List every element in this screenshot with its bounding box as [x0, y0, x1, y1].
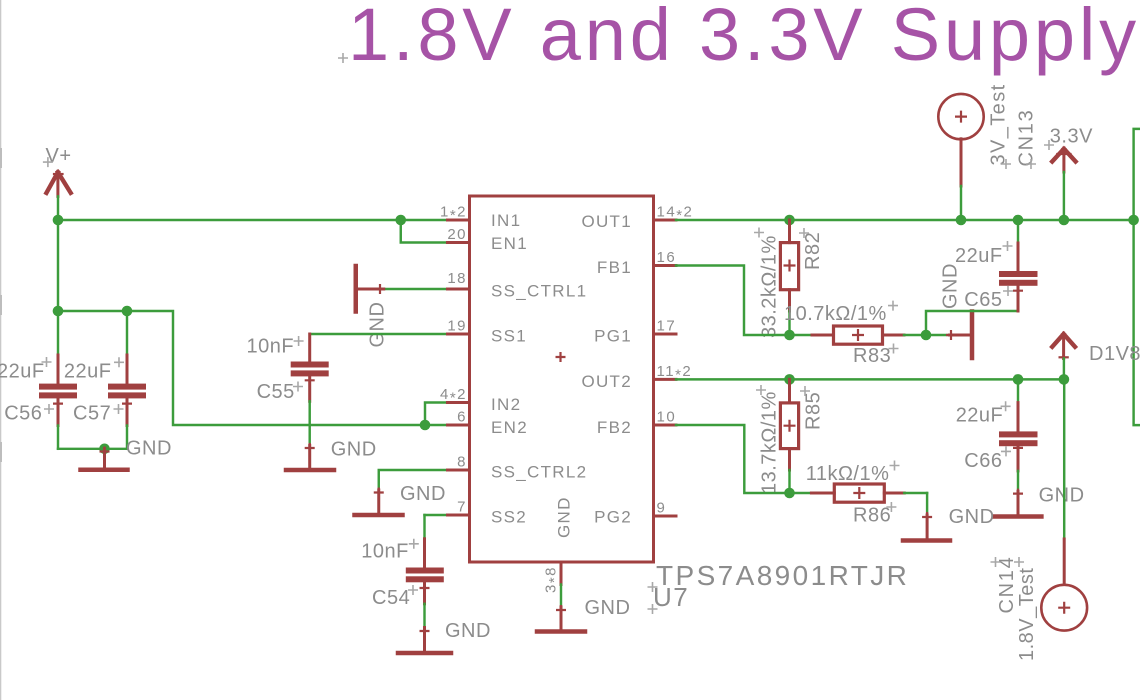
pin 11*2 OUT2 [581, 363, 692, 391]
pin 20 EN1 [447, 226, 528, 253]
pin 7 SS2 [448, 499, 528, 527]
svg-text:1.8V and 3.3V Supply: 1.8V and 3.3V Supply [348, 0, 1140, 76]
supply arrow 3.3V [1044, 125, 1093, 220]
svg-text:TPS7A8901RTJR: TPS7A8901RTJR [656, 560, 909, 591]
resistor R85 13.7kOhm [756, 379, 825, 494]
svg-text:1.8V_Test: 1.8V_Test [1016, 568, 1038, 661]
svg-text:6: 6 [457, 409, 467, 426]
svg-text:GND: GND [400, 483, 446, 505]
svg-text:16: 16 [657, 249, 677, 266]
wire right edge branch [1134, 129, 1140, 425]
junction R83/C65/ground [921, 330, 932, 341]
svg-text:CN14: CN14 [996, 556, 1018, 614]
svg-text:C65: C65 [964, 289, 1002, 311]
wire IN2 branch [425, 403, 448, 426]
junction rail at D1V8/CN14 [1059, 374, 1070, 385]
wire V+ vertical [57, 196, 59, 311]
junction rail right edge [1128, 215, 1139, 226]
svg-text:GND: GND [126, 438, 172, 460]
wire SS2 to C54 [425, 515, 449, 539]
capacitor C57 22uF [64, 311, 146, 449]
svg-text:GND: GND [555, 496, 574, 538]
wire C65 bottom to R83 node [926, 311, 1018, 335]
svg-text:R85: R85 [803, 392, 825, 430]
junction EN2/IN2 branch [420, 420, 431, 431]
capacitor C65 22uF [955, 220, 1038, 311]
test point CN14 [991, 539, 1088, 661]
ground symbol at SS_CTRL2 [355, 483, 446, 515]
capacitor C66 22uF [956, 379, 1038, 491]
svg-text:R83: R83 [853, 345, 891, 367]
pin 1*2 IN1 [440, 204, 521, 231]
svg-text:7: 7 [457, 499, 467, 516]
pin 19 SS1 [447, 318, 527, 346]
ground symbol below IC [537, 597, 630, 632]
junction FB2/R85/R86 [784, 488, 795, 499]
pin 3*8 GND [543, 496, 574, 593]
svg-text:R86: R86 [853, 504, 891, 526]
pin 17 PG1 [594, 318, 676, 346]
svg-text:PG2: PG2 [594, 508, 632, 527]
power symbol V+ [43, 145, 72, 196]
svg-text:C66: C66 [964, 450, 1002, 472]
svg-text:SS_CTRL1: SS_CTRL1 [491, 282, 587, 301]
svg-text:EN2: EN2 [491, 418, 528, 437]
ground symbol below C56/C57 [81, 438, 172, 470]
wire EN1 branch [401, 220, 448, 243]
svg-text:22uF: 22uF [0, 361, 45, 383]
resistor R86 11kOhm [790, 461, 928, 527]
op-amp/regulator IC U7 TPS7A8901RTJR [440, 196, 909, 614]
junction at C56 top [53, 306, 64, 317]
svg-text:17: 17 [657, 318, 677, 335]
wire V+ rail to IN1 [58, 219, 448, 221]
svg-text:CN13: CN13 [1016, 109, 1038, 167]
svg-text:U7: U7 [653, 582, 689, 612]
wire SS_CTRL1 to ground [384, 288, 448, 290]
svg-text:3V_Test: 3V_Test [988, 83, 1010, 165]
junction rail at C65 [1013, 215, 1024, 226]
svg-text:IN2: IN2 [491, 395, 521, 414]
svg-text:GND: GND [331, 439, 377, 461]
title text 1.8V and 3.3V Supply [338, 0, 1140, 76]
svg-text:SS2: SS2 [491, 508, 527, 527]
svg-text:20: 20 [447, 226, 467, 243]
svg-text:GND: GND [367, 302, 389, 348]
resistor R82 33.2kOhm [754, 220, 824, 338]
ground symbol below C54 [398, 620, 491, 653]
svg-text:GND: GND [940, 263, 962, 309]
svg-text:R82: R82 [802, 232, 824, 270]
junction FB1/R82/R83 [784, 330, 795, 341]
pin 10 FB2 [597, 409, 676, 438]
svg-text:GND: GND [585, 597, 631, 619]
ground symbol right of R86 [903, 493, 950, 541]
junction IN1/EN1 branch [395, 215, 406, 226]
svg-text:C55: C55 [257, 381, 295, 403]
wire SS_CTRL2 to ground [379, 470, 448, 490]
wire OUT1 3.3V rail [676, 219, 1134, 221]
pin 6 EN2 [448, 409, 528, 438]
svg-text:10nF: 10nF [247, 336, 295, 358]
svg-text:10: 10 [657, 409, 677, 426]
svg-text:22uF: 22uF [955, 245, 1003, 267]
svg-text:22uF: 22uF [956, 404, 1004, 426]
svg-text:FB2: FB2 [597, 418, 632, 437]
pin 18 SS_CTRL1 [447, 270, 587, 301]
svg-text:FB1: FB1 [597, 258, 632, 277]
junction rail at 3.3V arrow [1059, 215, 1070, 226]
wire SS1 [310, 333, 448, 335]
pin 14*2 OUT1 [581, 204, 693, 232]
svg-text:C56: C56 [4, 403, 42, 425]
svg-text:GND: GND [1039, 484, 1085, 506]
svg-text:OUT1: OUT1 [581, 212, 632, 231]
junction rail at R82 [784, 215, 795, 226]
junction rail at R85 [784, 374, 795, 385]
capacitor C54 10nF [361, 539, 444, 628]
svg-text:D1V8: D1V8 [1089, 343, 1140, 365]
supply arrow D1V8 [1052, 333, 1140, 379]
capacitor C55 10nF [247, 334, 329, 446]
svg-text:8: 8 [457, 454, 467, 471]
svg-text:IN1: IN1 [491, 211, 521, 230]
sheet frame left edge [0, 0, 2, 700]
svg-text:13.7kΩ/1%: 13.7kΩ/1% [759, 391, 781, 494]
ground symbol right of R83 (rotated) [926, 263, 972, 358]
wire IC GND pin to ground [560, 585, 562, 608]
wire V+ to C56/C57 node [58, 311, 448, 425]
svg-text:PG1: PG1 [594, 327, 632, 346]
junction rail at C66 [1013, 374, 1024, 385]
wire OUT2 1.8V rail [676, 378, 1064, 380]
capacitor C56 22uF [0, 311, 77, 449]
wire FB2 to divider [676, 425, 790, 493]
svg-text:18: 18 [447, 270, 467, 287]
ground symbol below C66 [949, 489, 1042, 528]
svg-text:SS1: SS1 [491, 327, 527, 346]
svg-text:11kΩ/1%: 11kΩ/1% [806, 463, 890, 485]
pin 9 PG2 [594, 500, 676, 527]
svg-text:10.7kΩ/1%: 10.7kΩ/1% [784, 303, 887, 325]
svg-text:GND: GND [445, 620, 491, 642]
junction ground bus [99, 444, 110, 455]
wire C56/C57 ground bus [58, 448, 127, 450]
svg-text:GND: GND [949, 506, 995, 528]
svg-text:V+: V+ [46, 145, 72, 167]
svg-text:SS_CTRL2: SS_CTRL2 [491, 463, 587, 482]
svg-text:19: 19 [447, 318, 467, 335]
resistor R83 10.7kOhm [784, 301, 926, 367]
svg-text:C54: C54 [372, 587, 410, 609]
svg-text:33.2kΩ/1%: 33.2kΩ/1% [759, 235, 781, 338]
svg-text:3.3V: 3.3V [1050, 125, 1093, 147]
svg-text:22uF: 22uF [64, 361, 112, 383]
wire 1.8V rail to CN14 [1063, 379, 1065, 539]
test point CN13 [938, 83, 1037, 220]
ground symbol below C55 [286, 439, 377, 470]
svg-text:EN1: EN1 [491, 234, 528, 253]
junction at C57 top [122, 306, 133, 317]
svg-text:9: 9 [657, 500, 667, 517]
junction V+ rail at x58 [53, 215, 64, 226]
svg-text:10nF: 10nF [361, 540, 409, 562]
svg-text:OUT2: OUT2 [581, 372, 632, 391]
wire FB1 to divider [676, 266, 790, 336]
pin 8 SS_CTRL2 [448, 454, 588, 482]
pin 4*2 IN2 [440, 386, 521, 414]
ground symbol at SS_CTRL1 (rotated) [356, 266, 389, 348]
pin 16 FB1 [597, 249, 676, 277]
junction rail at CN13 [956, 215, 967, 226]
svg-text:C57: C57 [73, 403, 111, 425]
